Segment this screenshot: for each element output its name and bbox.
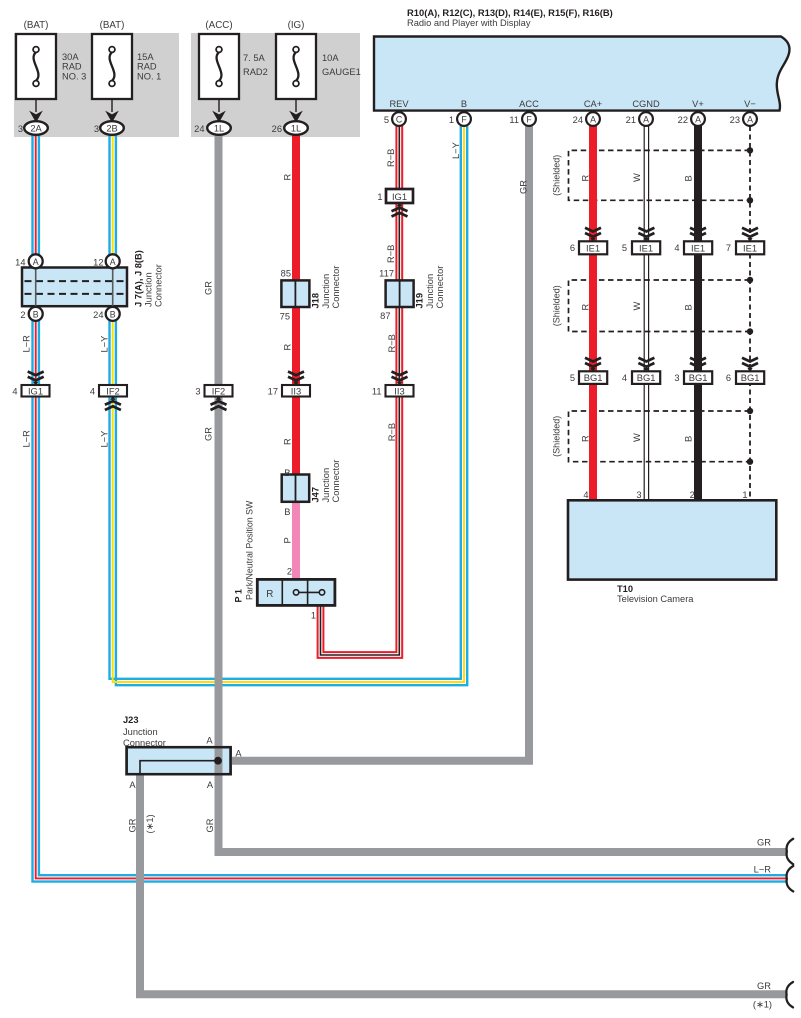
connector 5 IE1 with down-chevron [632,228,660,255]
svg-text:L−R: L−R [754,865,772,875]
svg-text:(Shielded): (Shielded) [552,155,562,196]
svg-text:21: 21 [626,115,636,125]
svg-text:IE1: IE1 [586,242,600,253]
svg-text:12: 12 [93,258,103,268]
svg-text:6: 6 [726,373,731,383]
svg-text:A: A [110,257,116,267]
fuse panel right [191,33,360,137]
svg-text:3: 3 [674,373,679,383]
svg-text:B: B [461,99,467,109]
svg-text:R−B: R−B [386,245,396,263]
svg-text:15A: 15A [137,52,154,62]
J7 pin circle B (24) [106,307,120,321]
wire R (radio CA+ down to camera pin 4) [589,126,597,502]
connector box labels [28,191,760,397]
connector 6 BG1 with down-chevron [736,358,764,384]
svg-text:P: P [283,537,293,543]
svg-text:W: W [632,433,642,442]
oval texts [30,124,301,134]
svg-text:V+: V+ [692,99,704,109]
svg-text:10A: 10A [322,53,339,63]
svg-text:BG1: BG1 [584,372,603,383]
svg-text:R−B: R−B [386,149,396,167]
svg-text:1: 1 [742,490,747,500]
radio pin circle F (B) [457,112,471,126]
svg-text:II3: II3 [394,386,404,397]
svg-text:GR: GR [128,818,138,832]
wire GR (radio ACC pin down, left to J23) [230,126,529,761]
junction connector J18 box [281,280,309,307]
wire L-R (fuse 2A down, right turn, to right edge) [33,135,787,882]
svg-text:(BAT): (BAT) [24,20,49,31]
svg-text:7. 5A: 7. 5A [243,53,266,63]
svg-text:A: A [206,736,213,746]
svg-text:A: A [33,257,39,267]
radio pin circle A (CGND) [639,112,653,126]
wire GR (ACC fuse down through J23 to right edge) [219,135,787,852]
junction connector J19 box [386,280,414,307]
svg-text:Junction: Junction [321,468,331,503]
svg-text:(∗1): (∗1) [145,814,155,833]
svg-text:ACC: ACC [519,99,539,109]
svg-text:2: 2 [690,490,695,500]
svg-text:3: 3 [636,490,641,500]
fuse 15A RAD NO.1 [92,34,132,123]
wire GR (*1) (J23 bottom-left down, right to right edge) [140,775,786,995]
svg-text:RAD: RAD [62,62,82,72]
radio pin circle A (CA+) [586,112,600,126]
svg-text:GR: GR [519,180,529,194]
connector 11 II3 (R-B) with down-chevron [386,372,414,397]
svg-text:1: 1 [311,611,316,621]
radio pin circle C (REV) [392,112,406,126]
svg-text:2A: 2A [30,124,42,134]
svg-text:BG1: BG1 [637,372,656,383]
svg-text:T10: T10 [617,584,633,594]
svg-text:85: 85 [281,269,291,279]
svg-text:6: 6 [570,243,575,253]
svg-text:L−R: L−R [22,430,32,448]
J23 border redraw + internal bus and junction dot [127,747,231,774]
svg-text:Connector: Connector [123,738,166,748]
svg-text:RAD: RAD [137,62,157,72]
svg-text:L−Y: L−Y [451,142,461,159]
svg-text:(Shielded): (Shielded) [552,416,562,457]
fuse 10A GAUGE1 [276,34,316,123]
svg-text:5: 5 [384,115,389,125]
svg-text:2: 2 [287,567,292,577]
svg-text:Junction: Junction [123,727,158,737]
svg-text:R: R [283,174,293,181]
svg-text:Connector: Connector [154,264,164,307]
connector 4 IE1 with down-chevron [684,228,712,255]
svg-text:11: 11 [509,115,519,125]
connector 4 IG1 (L-R) with down-chevron [22,372,50,397]
wire R (IG fuse down through J18, II3, J47) [292,135,300,478]
svg-text:GR: GR [757,838,771,848]
connector oval 2A [24,121,48,135]
connector 5 BG1 with down-chevron [579,358,607,384]
radio pin circle letters [33,114,753,319]
svg-text:B: B [684,175,694,181]
svg-text:R: R [283,438,293,445]
connector 3 IF2 (GR) with up-chevron [205,385,233,410]
svg-text:C: C [396,114,403,124]
park/neutral position switch P1 box [257,579,335,605]
svg-text:IE1: IE1 [639,242,653,253]
svg-text:R: R [581,304,591,311]
svg-text:Junction: Junction [321,274,331,309]
svg-text:Junction: Junction [425,274,435,309]
svg-text:B: B [684,436,694,442]
svg-text:87: 87 [380,311,390,321]
svg-text:B: B [110,309,116,319]
svg-text:IF2: IF2 [106,386,120,397]
J7 pin circle B (2) [29,307,43,321]
svg-text:3: 3 [18,124,23,134]
television camera T10 box [568,500,776,579]
fuse 7.5A RAD2 [199,34,239,123]
connector 3 BG1 with down-chevron [684,358,712,384]
shielded box 2 (dashed) [569,280,751,332]
svg-text:Connector: Connector [331,460,341,503]
connector 4 IF2 (L-Y) with up-chevron [99,385,127,410]
svg-text:23: 23 [730,115,740,125]
svg-text:B: B [284,468,290,478]
svg-text:5: 5 [622,243,627,253]
shielded box 3 (dashed) [569,411,751,462]
svg-text:J19: J19 [415,293,425,309]
svg-text:1L: 1L [291,124,301,134]
svg-text:Television Camera: Television Camera [617,594,694,604]
svg-text:A: A [695,114,701,124]
svg-text:W: W [632,173,642,182]
svg-text:W: W [632,302,642,311]
shielded box 1 (dashed) [569,150,751,200]
svg-text:GR: GR [204,281,214,295]
svg-text:B: B [33,309,39,319]
connector 17 II3 (R) with down-chevron [282,372,310,397]
svg-text:A: A [590,114,596,124]
svg-text:IG1: IG1 [28,386,43,397]
radio pin circle A (V+) [691,112,705,126]
svg-text:2B: 2B [106,124,117,134]
svg-text:30A: 30A [62,52,79,62]
svg-text:NO. 1: NO. 1 [137,71,161,81]
svg-text:GAUGE1: GAUGE1 [322,67,361,77]
svg-text:4: 4 [674,243,679,253]
fuse 30A RAD NO.3 [16,34,56,123]
svg-text:2: 2 [20,310,25,320]
svg-text:(∗1): (∗1) [753,1000,772,1010]
svg-text:11: 11 [372,387,382,397]
svg-text:Connector: Connector [435,266,445,309]
svg-text:GR: GR [757,981,771,991]
J7 pin circle A (12) [106,254,120,268]
svg-text:A: A [129,780,136,790]
svg-text:BG1: BG1 [741,372,760,383]
svg-text:J47: J47 [311,487,321,503]
svg-text:J 7(A), J 8(B): J 7(A), J 8(B) [134,250,144,307]
svg-text:24: 24 [573,115,583,125]
svg-text:A: A [207,780,214,790]
svg-text:GR: GR [204,427,214,441]
svg-text:RAD2: RAD2 [243,67,268,77]
svg-text:1L: 1L [214,124,224,134]
svg-text:Radio and Player with Display: Radio and Player with Display [407,18,531,28]
wire R-B (radio REV pin down through IG1, J19, II3, loop to P1 pin 1) [318,126,403,658]
svg-text:F: F [526,114,532,124]
connector oval 1L (ACC) [207,121,231,135]
svg-text:R10(A), R12(C), R13(D), R14(E): R10(A), R12(C), R13(D), R14(E), R15(F), … [407,7,613,18]
svg-text:7: 7 [726,243,731,253]
radio pin circle A (V-) [743,112,757,126]
connector oval 1L (IG) [284,121,308,135]
connector 4 BG1 with down-chevron [632,358,660,384]
svg-text:(BAT): (BAT) [100,20,125,31]
svg-text:IF2: IF2 [212,386,226,397]
svg-text:R: R [266,589,273,600]
svg-text:4: 4 [12,387,17,397]
svg-text:L−Y: L−Y [100,336,110,353]
svg-text:J23: J23 [123,715,139,725]
svg-text:F: F [461,114,467,124]
svg-text:26: 26 [272,124,282,134]
wire B (radio V+ down to camera pin 2) [694,126,702,502]
radio and player with display block R10 [374,37,790,111]
svg-text:L−R: L−R [22,335,32,353]
wire W (radio CGND down to camera pin 3) [644,126,648,502]
svg-text:A: A [747,114,753,124]
svg-text:NO. 3: NO. 3 [62,71,86,81]
svg-text:1: 1 [377,192,382,202]
svg-text:V−: V− [744,99,756,109]
svg-text:B: B [684,304,694,310]
svg-text:L−Y: L−Y [100,431,110,448]
continuation brace L-R right [787,866,794,891]
svg-text:75: 75 [280,312,290,322]
svg-text:3: 3 [195,387,200,397]
connector oval 2B [100,121,124,135]
svg-text:(Shielded): (Shielded) [552,285,562,326]
svg-text:II3: II3 [291,386,301,397]
svg-text:R: R [581,175,591,182]
junction connector J47 box [282,475,310,502]
svg-text:17: 17 [268,387,278,397]
connector 7 IE1 with down-chevron [736,228,764,255]
wire L-Y (fuse 2B down, right, up to radio B pin) [110,126,468,685]
svg-text:24: 24 [194,124,204,134]
svg-text:5: 5 [570,373,575,383]
wire P (pink, J47 to P1 pin 2) [292,498,300,581]
svg-text:R: R [283,344,293,351]
svg-text:4: 4 [583,490,588,500]
svg-text:IE1: IE1 [691,242,705,253]
svg-text:P 1: P 1 [234,589,244,602]
svg-text:A: A [643,114,649,124]
svg-text:IG1: IG1 [392,191,407,202]
connector 1 IG1 (REV wire) with up-chevron [386,189,413,217]
svg-text:(ACC): (ACC) [205,20,232,31]
svg-text:Junction: Junction [144,272,154,307]
svg-text:IE1: IE1 [743,242,757,253]
radio pin circle F (ACC) [522,112,536,126]
svg-text:CGND: CGND [632,99,660,109]
svg-text:Park/Neutral Position SW: Park/Neutral Position SW [245,500,255,600]
svg-text:117: 117 [379,269,394,279]
fuse panel left [14,33,179,137]
svg-text:R: R [581,435,591,442]
svg-text:22: 22 [678,115,688,125]
svg-text:4: 4 [90,387,95,397]
continuation brace GR right [787,839,794,864]
svg-text:A: A [235,749,242,759]
svg-text:Connector: Connector [331,266,341,309]
svg-text:J18: J18 [311,293,321,309]
wire V- (dashed, radio V- down to camera pin 1) [749,126,751,502]
svg-text:24: 24 [93,310,103,320]
junction connector J7(A) J8(B) box [22,268,127,307]
svg-text:B: B [284,507,290,517]
svg-text:GR: GR [205,818,215,832]
svg-text:CA+: CA+ [584,99,602,109]
svg-text:(IG): (IG) [288,20,305,31]
svg-text:1: 1 [449,115,454,125]
svg-text:R−B: R−B [387,423,397,441]
junction connector J23 box [127,747,231,774]
svg-text:4: 4 [622,373,627,383]
J7 pin circle A (14) [29,254,43,268]
svg-text:3: 3 [94,124,99,134]
continuation brace GR (*1) right [786,982,793,1007]
shield junction dots on V- line [747,147,753,465]
connector 6 IE1 with down-chevron [579,228,607,255]
svg-text:BG1: BG1 [689,372,708,383]
svg-text:14: 14 [15,258,25,268]
svg-text:REV: REV [389,99,409,109]
svg-text:R−B: R−B [387,334,397,352]
